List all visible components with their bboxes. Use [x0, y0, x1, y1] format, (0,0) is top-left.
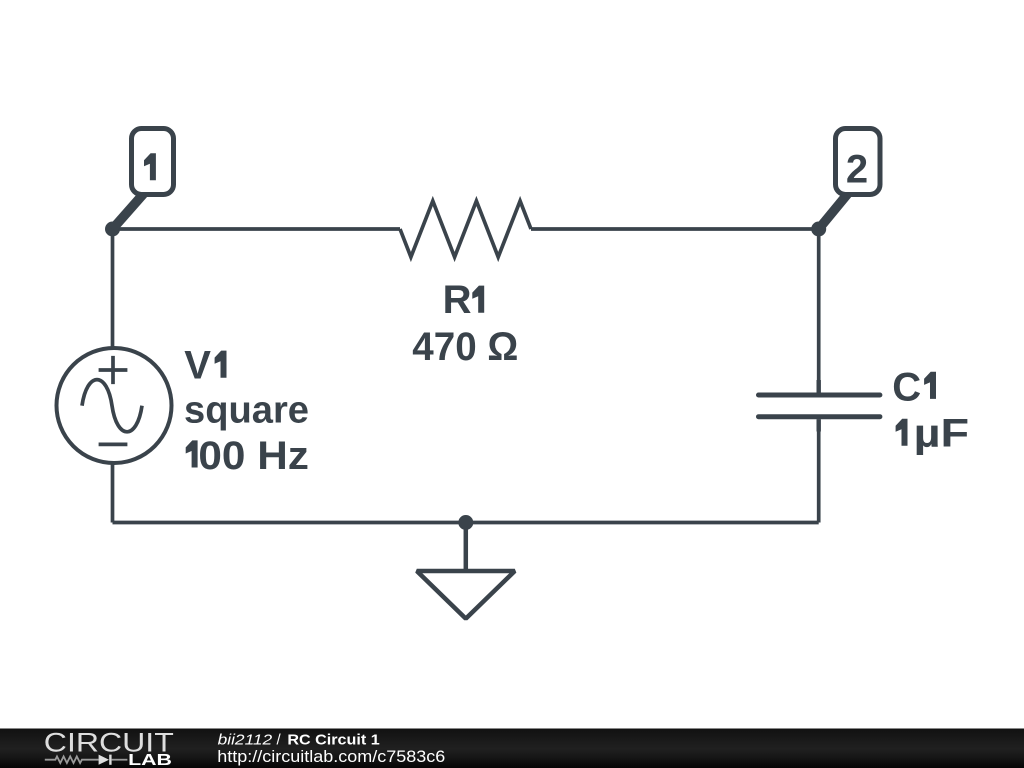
svg-text:square: square: [184, 389, 309, 431]
node flag 1 tail: [113, 191, 147, 229]
label 1 uF: [896, 419, 908, 446]
voltage source V1 circle: [57, 348, 172, 463]
capacitor C1 plates: [759, 395, 880, 417]
svg-text:C: C: [892, 365, 921, 409]
node dot 2: [811, 222, 826, 237]
wire top right: resistor to node2: [531, 227, 819, 231]
V1 minus sign: [99, 443, 128, 447]
ground triangle: [417, 571, 515, 619]
logo squiggle wire left: [45, 756, 99, 763]
svg-text:http://circuitlab.com/c7583c6: http://circuitlab.com/c7583c6: [217, 747, 445, 766]
svg-text:V: V: [184, 344, 211, 388]
V1 plus sign: [99, 356, 128, 384]
svg-text:LAB: LAB: [128, 752, 172, 768]
capacitor C1 pin stubs: [817, 380, 821, 432]
logo squiggle wire right: [112, 759, 128, 761]
wire left vertical: V1 bottom to bottom rail: [111, 462, 115, 523]
svg-text:470 Ω: 470 Ω: [412, 325, 518, 369]
node flag 2 tail: [819, 191, 850, 229]
svg-text:RC Circuit 1: RC Circuit 1: [287, 732, 379, 749]
wire right vertical: C1 bottom to bottom rail: [817, 419, 821, 522]
svg-text:2: 2: [846, 147, 868, 191]
node dot 1: [105, 222, 120, 237]
wire left vertical: node1 to V1 top: [111, 229, 115, 349]
svg-text:bii2112: bii2112: [218, 732, 273, 749]
footer bar: [0, 729, 1024, 768]
ground node dot: [458, 515, 473, 530]
logo diode triangle: [99, 755, 109, 765]
svg-text:µF: µF: [914, 411, 970, 455]
ground stem: [464, 523, 469, 572]
node flag 1 box: [132, 129, 174, 195]
resistor R1 zigzag: [400, 201, 531, 257]
wire right vertical: node2 to C1 top: [817, 229, 821, 393]
node label 1 glyph: [144, 153, 156, 180]
svg-text:00 Hz: 00 Hz: [198, 434, 309, 478]
wire top left: node1 to resistor: [113, 227, 401, 231]
wire bottom rail: [113, 521, 819, 525]
logo diode bar: [109, 755, 111, 765]
node flag 2 box: [836, 129, 881, 195]
svg-text:R: R: [443, 278, 472, 322]
V1 sine glyph: [82, 380, 142, 432]
label 100 Hz: [186, 440, 198, 467]
